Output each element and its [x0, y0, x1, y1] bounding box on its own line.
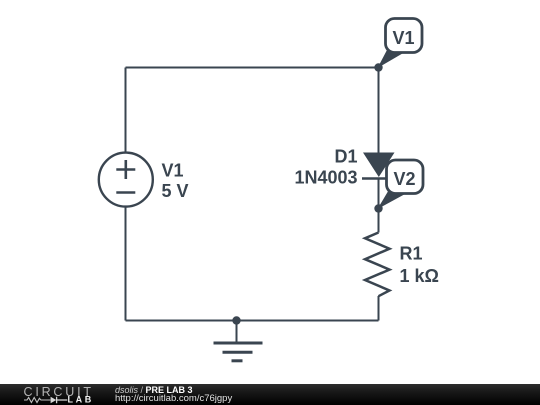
svg-text:D1: D1: [334, 147, 357, 167]
node dot ground: [232, 316, 240, 324]
svg-text:5 V: 5 V: [162, 181, 189, 201]
logo resistor squiggle: [24, 398, 50, 403]
svg-text:http://circuitlab.com/c76jgpy: http://circuitlab.com/c76jgpy: [115, 393, 232, 404]
node flag V2 box: [387, 160, 424, 194]
wire left rail upper: [125, 68, 127, 153]
node dot top right: [374, 63, 382, 71]
ground: [214, 321, 263, 361]
wire diode to node V2: [378, 179, 380, 233]
footer bar: [0, 384, 540, 405]
node dot below diode: [374, 204, 382, 212]
wire resistor to bottom rail: [378, 296, 380, 321]
wire left rail lower: [125, 208, 127, 321]
voltage source V1: [99, 153, 153, 207]
wire bottom rail: [126, 320, 379, 322]
svg-text:LAB: LAB: [68, 395, 94, 405]
wire right rail upper: [378, 68, 380, 155]
resistor R1: [365, 233, 390, 297]
node flag V1 tail: [378, 49, 406, 68]
node flag V1 box: [386, 19, 423, 53]
svg-text:V2: V2: [393, 169, 415, 189]
svg-text:V1: V1: [162, 161, 184, 181]
diode D1: [362, 153, 396, 179]
svg-text:R1: R1: [400, 244, 423, 264]
logo diode: [51, 397, 57, 403]
node flag V2 tail: [378, 191, 407, 210]
svg-text:V1: V1: [392, 28, 414, 48]
svg-text:1N4003: 1N4003: [294, 168, 357, 188]
svg-text:1 kΩ: 1 kΩ: [400, 266, 439, 286]
wire top rail: [126, 67, 379, 69]
